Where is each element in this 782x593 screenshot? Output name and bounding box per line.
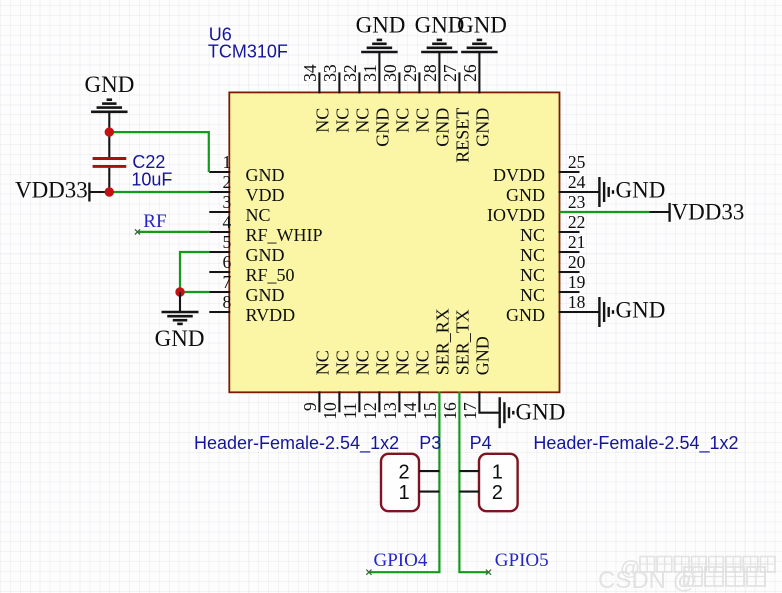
svg-text:NC: NC <box>333 108 353 133</box>
svg-text:NC: NC <box>333 350 353 375</box>
svg-text:VDD: VDD <box>246 185 285 205</box>
svg-text:2: 2 <box>398 462 409 484</box>
svg-text:RVDD: RVDD <box>246 305 296 325</box>
svg-text:4: 4 <box>223 212 232 232</box>
svg-text:NC: NC <box>413 108 433 133</box>
svg-text:3: 3 <box>223 192 232 212</box>
svg-text:33: 33 <box>320 64 340 82</box>
svg-text:2: 2 <box>492 482 503 504</box>
svg-text:GND: GND <box>246 245 285 265</box>
svg-text:23: 23 <box>568 192 586 212</box>
svg-text:GND: GND <box>616 178 666 203</box>
svg-text:SER_TX: SER_TX <box>453 309 473 375</box>
svg-text:8: 8 <box>223 292 232 312</box>
svg-text:GND: GND <box>433 108 453 147</box>
svg-text:GND: GND <box>457 13 507 38</box>
svg-text:RF: RF <box>143 211 166 232</box>
svg-text:21: 21 <box>568 232 586 252</box>
svg-text:18: 18 <box>568 292 586 312</box>
svg-text:P3: P3 <box>419 433 441 453</box>
svg-text:NC: NC <box>520 285 545 305</box>
svg-text:IOVDD: IOVDD <box>487 205 545 225</box>
svg-text:6: 6 <box>223 252 232 272</box>
svg-text:GND: GND <box>246 165 285 185</box>
svg-text:10uF: 10uF <box>131 170 172 190</box>
svg-text:NC: NC <box>373 350 393 375</box>
svg-text:27: 27 <box>440 64 460 82</box>
svg-text:Header-Female-2.54_1x2: Header-Female-2.54_1x2 <box>194 433 399 454</box>
svg-text:20: 20 <box>568 252 586 272</box>
svg-text:NC: NC <box>353 108 373 133</box>
svg-text:SER_RX: SER_RX <box>433 308 453 375</box>
svg-text:NC: NC <box>246 205 271 225</box>
svg-text:5: 5 <box>223 232 232 252</box>
svg-text:RESET: RESET <box>453 108 473 163</box>
svg-text:NC: NC <box>313 108 333 133</box>
svg-text:34: 34 <box>300 64 320 82</box>
svg-text:DVDD: DVDD <box>493 165 545 185</box>
svg-text:RF_50: RF_50 <box>246 265 295 285</box>
svg-text:NC: NC <box>413 350 433 375</box>
svg-text:32: 32 <box>340 64 360 82</box>
svg-text:24: 24 <box>568 172 586 192</box>
svg-text:VDD33: VDD33 <box>15 177 88 202</box>
svg-text:1: 1 <box>223 152 232 172</box>
svg-text:GND: GND <box>473 336 493 375</box>
svg-text:NC: NC <box>353 350 373 375</box>
svg-text:NC: NC <box>393 108 413 133</box>
svg-text:NC: NC <box>520 245 545 265</box>
svg-text:13: 13 <box>380 402 400 420</box>
svg-text:16: 16 <box>440 402 460 420</box>
svg-text:1: 1 <box>398 482 409 504</box>
svg-text:RF_WHIP: RF_WHIP <box>246 225 323 245</box>
svg-text:GPIO5: GPIO5 <box>495 550 549 571</box>
svg-text:7: 7 <box>223 272 232 292</box>
svg-text:VDD33: VDD33 <box>672 200 745 225</box>
svg-text:GND: GND <box>373 108 393 147</box>
svg-text:25: 25 <box>568 152 586 172</box>
svg-text:NC: NC <box>313 350 333 375</box>
svg-text:12: 12 <box>360 402 380 420</box>
svg-text:GND: GND <box>506 185 545 205</box>
svg-text:29: 29 <box>400 64 420 82</box>
svg-text:10: 10 <box>320 402 340 420</box>
svg-text:14: 14 <box>400 402 420 420</box>
svg-text:CSDN @: CSDN @ <box>598 567 697 593</box>
svg-text:GND: GND <box>84 72 134 97</box>
svg-text:19: 19 <box>568 272 586 292</box>
svg-text:9: 9 <box>300 402 320 411</box>
svg-text:GND: GND <box>506 305 545 325</box>
svg-text:11: 11 <box>340 402 360 419</box>
svg-text:22: 22 <box>568 212 586 232</box>
svg-text:30: 30 <box>380 64 400 82</box>
svg-text:GPIO4: GPIO4 <box>374 550 428 571</box>
svg-text:GND: GND <box>473 108 493 147</box>
svg-text:GND: GND <box>616 298 666 323</box>
svg-text:TCM310F: TCM310F <box>208 42 288 62</box>
svg-text:2: 2 <box>223 172 232 192</box>
svg-text:26: 26 <box>460 64 480 82</box>
svg-text:NC: NC <box>393 350 413 375</box>
svg-text:1: 1 <box>492 462 503 484</box>
svg-text:GND: GND <box>246 285 285 305</box>
svg-text:Header-Female-2.54_1x2: Header-Female-2.54_1x2 <box>533 433 738 454</box>
svg-text:31: 31 <box>360 64 380 82</box>
svg-text:GND: GND <box>516 399 566 424</box>
svg-text:15: 15 <box>420 402 440 420</box>
svg-text:28: 28 <box>420 64 440 82</box>
svg-text:NC: NC <box>520 225 545 245</box>
svg-text:NC: NC <box>520 265 545 285</box>
svg-text:17: 17 <box>460 402 480 420</box>
svg-text:GND: GND <box>155 326 205 351</box>
svg-text:P4: P4 <box>470 433 492 453</box>
svg-text:GND: GND <box>356 13 406 38</box>
